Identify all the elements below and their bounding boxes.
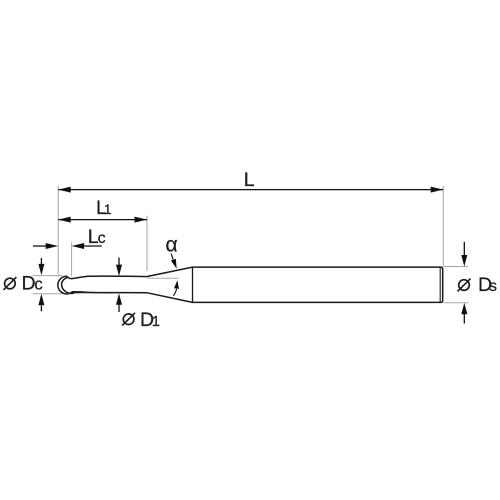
extension line: Lc right vertical (x=71.6): [71, 242, 73, 276]
Ds lower arrow: [463, 314, 465, 324]
tool silhouette: [58, 267, 443, 302]
svg-text:Lc: Lc: [88, 226, 106, 248]
dimension L line: [58, 189, 443, 191]
dimension Lc right tail: [84, 245, 102, 247]
dimension L1 line: [58, 219, 147, 221]
ball flute sweep: [72, 292, 113, 293]
svg-text:α: α: [166, 234, 178, 257]
svg-text:Ds: Ds: [478, 274, 497, 296]
shank/taper junction line: [192, 267, 194, 302]
label Ds: [458, 279, 471, 292]
extension line: Ds top: [444, 266, 469, 268]
Dc upper arrow: [40, 258, 42, 266]
extension line: alpha angle reference: [148, 277, 179, 279]
D1 lower arrow: [118, 305, 120, 313]
Ds upper arrow: [463, 242, 465, 256]
extension line: L1 right vertical (x=147): [146, 216, 148, 271]
ball flute crescent: [62, 277, 74, 293]
alpha angle arc: [173, 289, 176, 296]
label Dc: [3, 277, 16, 290]
alpha arc arrowhead: [174, 280, 179, 289]
extension line: Dc top tangent: [33, 275, 63, 277]
arrow Lc right (pointing left): [72, 243, 85, 249]
extension line: L right vertical (x=443.2): [442, 186, 444, 267]
extension line: tool tip vertical (x=58.2): [57, 186, 59, 277]
extension line: Ds bottom: [444, 302, 469, 304]
Dc lower arrow: [40, 306, 42, 312]
arrow L right: [431, 187, 444, 193]
dimension Lc left tail: [33, 245, 47, 247]
svg-text:L: L: [244, 169, 255, 191]
arrow L1 right: [135, 217, 148, 223]
shank end chamfer line: [439, 267, 441, 302]
svg-text:L1: L1: [96, 197, 112, 219]
alpha leader line: [171, 254, 173, 261]
arrow Lc left (pointing right): [46, 243, 59, 249]
arrow L1 left: [58, 217, 70, 223]
arrow L left: [58, 187, 70, 193]
extension line: Dc bottom tangent: [33, 293, 63, 295]
svg-text:Dc: Dc: [22, 273, 44, 295]
alpha leader arrowhead: [171, 259, 177, 269]
D1 upper arrow: [118, 258, 120, 267]
label D1: [122, 313, 135, 326]
svg-text:D1: D1: [140, 309, 160, 331]
